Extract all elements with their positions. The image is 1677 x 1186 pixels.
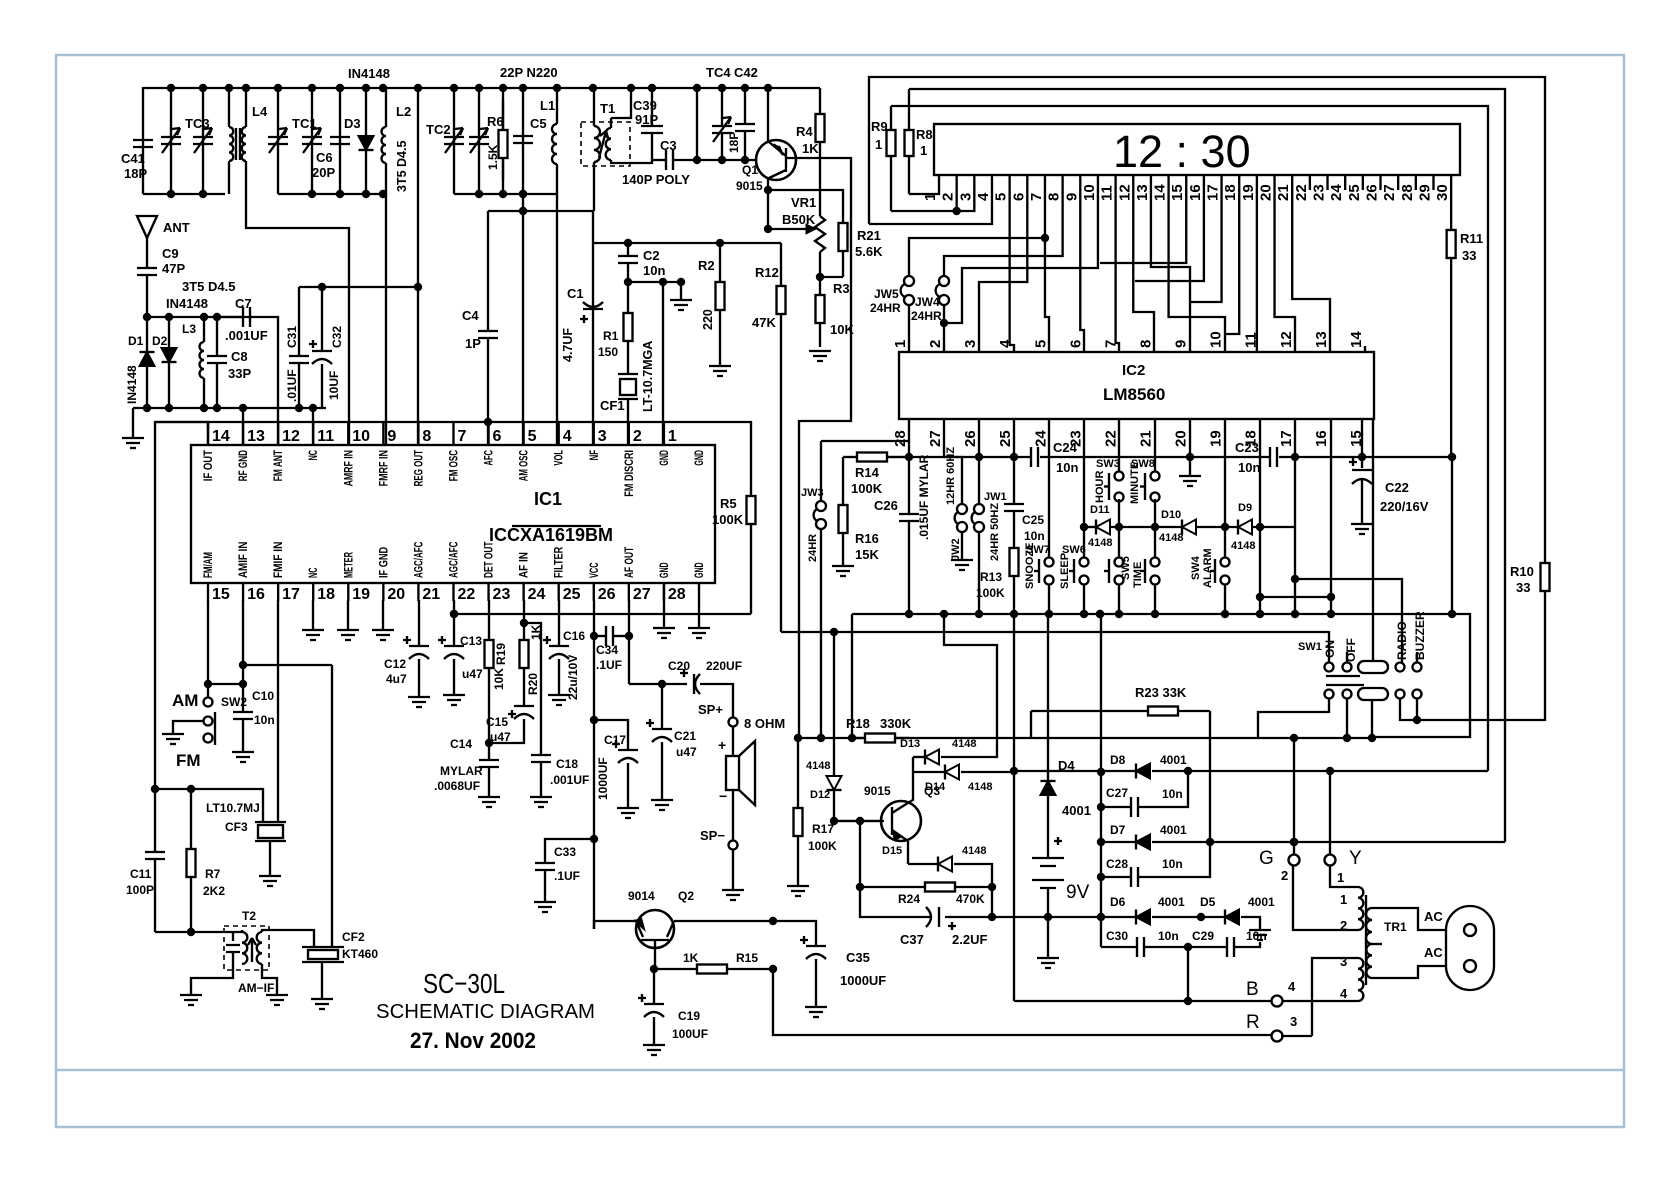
- svg-text:8: 8: [1046, 193, 1063, 201]
- jumper JW4 24HR: [939, 276, 949, 286]
- wire display pin12 to IC2 pin8: [1133, 190, 1154, 352]
- svg-text:27: 27: [633, 586, 651, 603]
- svg-text:NC: NC: [308, 568, 320, 578]
- svg-text:TC2: TC2: [426, 122, 451, 137]
- svg-text:C25: C25: [1022, 513, 1044, 527]
- capacitor C41: [133, 140, 153, 147]
- wire C2 top row: [593, 242, 781, 244]
- svg-text:10n: 10n: [254, 713, 275, 727]
- svg-text:C12: C12: [384, 657, 406, 671]
- svg-text:91P: 91P: [635, 112, 658, 127]
- svg-text:10n: 10n: [1158, 929, 1179, 943]
- IC1 pin 24 stub: [522, 583, 524, 601]
- wire TC4/C42 bottom row: [697, 159, 756, 161]
- svg-text:MYLAR: MYLAR: [440, 764, 483, 778]
- IC1 pin 21 stub: [417, 583, 419, 601]
- svg-text:D7: D7: [1110, 823, 1126, 837]
- wire display pin9 to IC2 pin6: [1080, 190, 1084, 352]
- svg-text:GND: GND: [659, 450, 671, 466]
- switch SW6 SLEEP: [1080, 558, 1089, 567]
- IC2 pin15 column: [1361, 419, 1363, 457]
- svg-text:Q1: Q1: [742, 163, 758, 177]
- svg-text:4148: 4148: [1231, 540, 1255, 552]
- wire RADIO/BUZZER bottoms to R10: [1400, 591, 1545, 720]
- wire R15 node down to R terminal line: [773, 969, 1277, 1035]
- IC1 pin 12 stub: [277, 422, 279, 445]
- svg-text:.015UF MYLAR: .015UF MYLAR: [917, 454, 931, 540]
- svg-text:C18: C18: [556, 757, 578, 771]
- display pin 11 stub: [1114, 175, 1116, 190]
- svg-text:10UF: 10UF: [327, 371, 341, 400]
- wire L1 to IC1 pin4: [556, 194, 558, 445]
- svg-text:100K: 100K: [808, 839, 837, 853]
- ground R2: [709, 366, 731, 376]
- svg-text:FM: FM: [176, 751, 201, 770]
- display pin 1 stub: [938, 175, 940, 190]
- svg-text:C22: C22: [1385, 480, 1409, 495]
- svg-text:JW1: JW1: [984, 491, 1007, 503]
- svg-text:14: 14: [1348, 331, 1365, 348]
- wire C20 row: [629, 683, 687, 685]
- svg-text:C9: C9: [162, 246, 179, 261]
- resistor R2 220: [719, 243, 721, 282]
- terminal Y: [1325, 855, 1336, 866]
- svg-text:1K: 1K: [683, 951, 699, 965]
- svg-text:GND: GND: [694, 562, 706, 578]
- wire display pin18 joins IC2 pin10 column: [1225, 190, 1239, 334]
- svg-text:22: 22: [1293, 184, 1310, 201]
- wire pin26 VCC column: [593, 600, 595, 929]
- svg-text:L4: L4: [252, 104, 268, 119]
- capacitor C13 u47: [453, 600, 455, 646]
- svg-text:R20: R20: [526, 673, 540, 695]
- transformer TR1 core: [1365, 895, 1367, 985]
- diode D3: [365, 88, 367, 194]
- wire C5 rail to IC1 pin5: [522, 194, 524, 445]
- wire rail right loop to SW1 oval: [1372, 614, 1470, 737]
- svg-text:470K: 470K: [956, 892, 985, 906]
- svg-text:5: 5: [528, 428, 537, 445]
- wire FM tank bottom rail: [454, 193, 557, 195]
- resistor R5 100K: [750, 495, 752, 497]
- svg-text:13: 13: [1313, 331, 1330, 348]
- svg-text:C31: C31: [285, 326, 299, 348]
- svg-text:13: 13: [247, 428, 265, 445]
- display pin 12 stub: [1132, 175, 1134, 190]
- wire C23/C24 row: [887, 456, 1031, 458]
- IC1 pin 22 stub: [452, 583, 454, 601]
- IC1 pin 25 stub: [558, 583, 560, 601]
- svg-text:D13: D13: [900, 738, 920, 750]
- svg-text:C30: C30: [1106, 929, 1128, 943]
- svg-text:22u/10V: 22u/10V: [566, 655, 580, 700]
- svg-text:R15: R15: [736, 951, 758, 965]
- display pin 19 stub: [1256, 175, 1258, 190]
- svg-text:3: 3: [598, 428, 607, 445]
- svg-text:18P: 18P: [727, 132, 741, 153]
- capacitor C34 .1UF: [594, 635, 606, 637]
- svg-text:C39: C39: [633, 98, 657, 113]
- IC1 pin 2 stub: [628, 422, 630, 445]
- svg-text:25: 25: [997, 430, 1014, 447]
- svg-text:.1UF: .1UF: [554, 869, 580, 883]
- capacitor C1 4.7UF: [592, 211, 594, 243]
- wire top supply rail: [143, 88, 820, 194]
- wire AM detector rail: [147, 316, 252, 318]
- svg-text:ICCXA1619BM: ICCXA1619BM: [489, 525, 613, 545]
- svg-text:8: 8: [422, 428, 431, 445]
- svg-text:SCHEMATIC DIAGRAM: SCHEMATIC DIAGRAM: [376, 1001, 595, 1023]
- svg-text:100K: 100K: [976, 586, 1005, 600]
- diode D8 4001: [1014, 770, 1101, 772]
- svg-text:2: 2: [927, 340, 944, 348]
- wire SW1 row2 oval drop: [1371, 700, 1373, 738]
- switch SW4 ALARM: [1224, 527, 1226, 558]
- svg-text:C5: C5: [530, 116, 547, 131]
- terminal G: [1289, 855, 1300, 866]
- wire R23 right to G row: [1209, 711, 1211, 842]
- display pin 26 stub: [1379, 175, 1381, 190]
- svg-text:IC2: IC2: [1122, 362, 1145, 379]
- diode D12 4148: [827, 776, 842, 790]
- svg-text:2.2UF: 2.2UF: [952, 932, 987, 947]
- wire pin27 column: [628, 600, 630, 684]
- svg-text:C28: C28: [1106, 857, 1128, 871]
- svg-text:D11: D11: [1090, 504, 1110, 516]
- wire D14 row: [913, 771, 945, 773]
- svg-text:220: 220: [701, 309, 715, 330]
- svg-text:C33: C33: [554, 845, 576, 859]
- svg-text:D15: D15: [882, 845, 902, 857]
- svg-text:21: 21: [1275, 184, 1292, 201]
- capacitor C42: [744, 88, 746, 124]
- svg-text:33: 33: [1516, 580, 1530, 595]
- svg-text:21: 21: [1137, 430, 1154, 447]
- svg-text:LT10.7MJ: LT10.7MJ: [206, 801, 260, 815]
- svg-text:1: 1: [920, 143, 927, 158]
- svg-text:24HR: 24HR: [870, 301, 901, 315]
- svg-text:C20: C20: [668, 659, 690, 673]
- svg-text:ON: ON: [1323, 640, 1337, 658]
- IC1 pin 4 stub: [558, 422, 560, 445]
- ceramic filter CF3 LT10.7MJ: [255, 822, 286, 841]
- resistor R13 100K: [1013, 545, 1015, 548]
- capacitor C33 .1UF: [545, 839, 594, 863]
- svg-text:18: 18: [1222, 184, 1239, 201]
- IC1 pin 18 stub: [312, 583, 314, 601]
- svg-text:12: 12: [1278, 331, 1295, 348]
- display pin 25 stub: [1362, 175, 1364, 190]
- svg-text:12: 12: [282, 428, 300, 445]
- svg-text:4001: 4001: [1158, 895, 1185, 909]
- wire pin15 oval riser: [1372, 419, 1374, 660]
- ground IC1 extra GND: [698, 583, 700, 628]
- svg-text:18: 18: [317, 586, 335, 603]
- svg-text:R12: R12: [755, 265, 779, 280]
- svg-text:D6: D6: [1110, 895, 1126, 909]
- svg-text:D12: D12: [810, 789, 830, 801]
- diode D10 4148: [1182, 520, 1196, 535]
- ground IC1 pin28: [663, 583, 665, 628]
- wire main low rail: [798, 737, 1372, 739]
- svg-text:15: 15: [1169, 184, 1186, 201]
- svg-text:47K: 47K: [752, 315, 776, 330]
- svg-text:D10: D10: [1161, 509, 1181, 521]
- IC2 pin21 column: [1154, 419, 1156, 471]
- capacitor C39 91P: [651, 88, 653, 126]
- display pin 16 stub: [1203, 175, 1205, 190]
- diode D9 4148: [1238, 520, 1252, 535]
- capacitor C22 220/16V: [1361, 457, 1363, 468]
- svg-text:R17: R17: [812, 822, 834, 836]
- wire TR1 secondary to AC plug: [1372, 908, 1452, 930]
- svg-text:B: B: [1246, 979, 1259, 1000]
- display pin 3 stub: [973, 175, 975, 190]
- svg-text:Q2: Q2: [678, 889, 694, 903]
- potentiometer VR1 B50K: [815, 216, 825, 252]
- resistor R4 1K: [819, 88, 821, 114]
- svg-text:27. Nov 2002: 27. Nov 2002: [410, 1028, 536, 1053]
- wire AM detector ground rail: [133, 407, 326, 409]
- svg-text:25: 25: [1346, 184, 1363, 201]
- wire T2 input row: [155, 931, 243, 933]
- resistor R23 33K: [1030, 711, 1032, 738]
- svg-text:CF3: CF3: [225, 820, 248, 834]
- wire SW1 row1 oval riser: [1372, 660, 1374, 661]
- svg-text:1000UF: 1000UF: [596, 757, 610, 800]
- svg-text:FMIF IN: FMIF IN: [273, 542, 285, 578]
- svg-text:AGC/AFC: AGC/AFC: [413, 542, 425, 578]
- svg-text:R18: R18: [846, 716, 870, 731]
- svg-text:25: 25: [563, 586, 581, 603]
- capacitor C14 MYLAR .0068UF: [488, 743, 490, 760]
- svg-text:.001UF: .001UF: [550, 773, 589, 787]
- svg-text:SW5: SW5: [1120, 556, 1132, 580]
- svg-text:R14: R14: [855, 465, 880, 480]
- svg-text:22: 22: [457, 586, 475, 603]
- IC2 pin14 stub: [1364, 346, 1366, 352]
- svg-text:SNOOZE: SNOOZE: [1024, 543, 1036, 589]
- svg-text:4001: 4001: [1160, 823, 1187, 837]
- svg-text:33: 33: [1462, 248, 1476, 263]
- svg-text:TIME: TIME: [1132, 562, 1144, 588]
- wire R5 bottom to pin22: [454, 613, 751, 615]
- IC1 pin 27 stub: [628, 583, 630, 601]
- display pin 29 stub: [1432, 175, 1434, 190]
- svg-text:ALARM: ALARM: [1202, 548, 1214, 588]
- svg-text:7: 7: [1102, 340, 1119, 348]
- svg-text:4148: 4148: [1088, 537, 1112, 549]
- svg-text:−: −: [719, 788, 727, 804]
- resistor R7 2K2: [190, 789, 192, 849]
- resistor R17 100K: [797, 738, 799, 808]
- svg-text:C17: C17: [604, 733, 626, 747]
- resistor R18 330K: [852, 737, 865, 739]
- svg-text:C13: C13: [460, 634, 482, 648]
- inductor L3: [203, 317, 205, 342]
- antenna ANT: [137, 216, 157, 238]
- transformer T2 dashed box: [224, 926, 269, 970]
- diode D5 4001: [1225, 910, 1239, 925]
- svg-text:SP+: SP+: [698, 702, 723, 717]
- capacitor C25 10n: [1004, 504, 1024, 511]
- svg-text:R8: R8: [916, 127, 933, 142]
- display pin 27 stub: [1397, 175, 1399, 190]
- svg-text:L3: L3: [182, 322, 196, 336]
- svg-text:10n: 10n: [1162, 857, 1183, 871]
- svg-text:C6: C6: [316, 150, 333, 165]
- svg-text:C26: C26: [874, 498, 898, 513]
- display pin 14 stub: [1167, 175, 1169, 190]
- resistor R3 10K: [819, 277, 821, 295]
- wire IC2 ground rail: [852, 613, 1452, 615]
- display pin 10 stub: [1097, 175, 1099, 190]
- svg-text:5.6K: 5.6K: [855, 244, 883, 259]
- svg-text:FM/AM: FM/AM: [203, 552, 215, 578]
- svg-text:8: 8: [1137, 340, 1154, 348]
- speaker 8 OHM: [732, 727, 734, 756]
- svg-text:24HR 50HZ: 24HR 50HZ: [989, 503, 1001, 561]
- svg-text:NC: NC: [308, 450, 320, 460]
- ceramic filter CF2 KT460: [302, 947, 344, 962]
- inductor L2: [385, 88, 387, 127]
- wire C29/C30 node to B line: [1187, 947, 1189, 1001]
- capacitor C17 1000UF: [594, 720, 628, 750]
- svg-text:D8: D8: [1110, 753, 1126, 767]
- svg-text:AC: AC: [1424, 945, 1443, 960]
- svg-text:IN4148: IN4148: [125, 365, 139, 404]
- diode D4 4001: [1041, 781, 1056, 795]
- svg-text:SW1: SW1: [1298, 641, 1322, 653]
- IC1 pin 15 stub: [207, 583, 209, 601]
- ground C2 row: [680, 282, 682, 300]
- diode D7 4001: [1101, 841, 1136, 843]
- switch SW7 SNOOZE: [1045, 558, 1054, 567]
- diode D11 4148: [1096, 520, 1110, 535]
- svg-text:2K2: 2K2: [203, 884, 225, 898]
- wire OFF stub: [1346, 652, 1348, 662]
- display pin 5 stub: [1008, 175, 1010, 190]
- svg-text:1: 1: [892, 340, 909, 348]
- capacitor C6: [339, 88, 341, 194]
- IC2 pin28 column with C26: [908, 419, 910, 514]
- svg-text:4148: 4148: [806, 760, 830, 772]
- resistor R6 1.5K: [502, 88, 504, 194]
- capacitor C11 100P: [154, 789, 156, 852]
- ground T2 left: [191, 964, 233, 995]
- svg-text:10K: 10K: [830, 322, 854, 337]
- svg-text:1.5K: 1.5K: [486, 144, 500, 170]
- svg-text:R5: R5: [720, 496, 737, 511]
- svg-text:AM−IF: AM−IF: [238, 981, 274, 995]
- svg-text:KT460: KT460: [342, 947, 378, 961]
- svg-text:C7: C7: [235, 296, 252, 311]
- display pin 9 stub: [1079, 175, 1081, 190]
- svg-text:C16: C16: [563, 629, 585, 643]
- svg-text:C2: C2: [643, 248, 660, 263]
- svg-text:C34: C34: [596, 643, 618, 657]
- svg-text:11: 11: [1243, 332, 1260, 348]
- ground R3: [809, 351, 831, 361]
- svg-text:17: 17: [282, 586, 300, 603]
- svg-text:GND: GND: [694, 450, 706, 466]
- svg-text:AMRF IN: AMRF IN: [343, 450, 355, 486]
- svg-text:24: 24: [528, 586, 546, 603]
- svg-text:16: 16: [247, 586, 265, 603]
- svg-text:4.7UF: 4.7UF: [561, 328, 575, 362]
- wire JW5 to display pin7/8 and IC2 pin5: [909, 238, 1045, 276]
- wire BUZZER top stub: [1416, 652, 1418, 662]
- capacitor C37 2.2UF: [860, 887, 932, 917]
- wire rail left drop: [851, 614, 853, 738]
- wire RADIO riser to IC2 pin17: [1295, 579, 1402, 662]
- svg-text:11: 11: [317, 428, 334, 445]
- IC1 pin 8 stub: [417, 422, 419, 445]
- IC1 pin 28 stub: [663, 583, 665, 601]
- wire R9 to display pins 2+3: [891, 190, 974, 211]
- svg-text:4148: 4148: [1159, 532, 1183, 544]
- svg-text:C37: C37: [900, 932, 924, 947]
- display pin 8 stub: [1061, 175, 1063, 190]
- svg-text:3: 3: [1290, 1014, 1297, 1029]
- svg-text:22P N220: 22P N220: [500, 65, 558, 80]
- svg-text:28: 28: [668, 586, 686, 603]
- wire D14/D8 row: [1010, 767, 1018, 775]
- wire display pin11 to IC2 pin7: [1116, 190, 1119, 352]
- svg-text:SW3: SW3: [1096, 458, 1120, 470]
- svg-text:u47: u47: [676, 745, 697, 759]
- svg-text:2: 2: [1340, 918, 1347, 933]
- wire pin11 feed: [312, 408, 314, 445]
- wire pin17 to CF3: [277, 600, 279, 822]
- svg-text:100K: 100K: [712, 512, 744, 527]
- svg-text:10n: 10n: [1024, 529, 1045, 543]
- svg-text:9: 9: [387, 428, 396, 445]
- trimmer TC2b: [478, 88, 480, 194]
- svg-text:4148: 4148: [968, 781, 992, 793]
- capacitor C27 10n: [1101, 806, 1131, 808]
- svg-text:FM OSC: FM OSC: [448, 450, 460, 481]
- svg-text:T2: T2: [242, 909, 256, 923]
- svg-text:10K: 10K: [492, 668, 506, 690]
- svg-text:AF IN: AF IN: [519, 552, 531, 578]
- wire left tank bottom rail: [143, 193, 225, 195]
- capacitor C5: [522, 88, 524, 194]
- display pin 2 stub: [955, 175, 957, 190]
- wire R20 tap to C18: [524, 623, 541, 755]
- wire display pin6 to IC2 pin3: [979, 190, 1027, 352]
- battery 9V: [1032, 858, 1064, 888]
- wire G row tap: [1290, 838, 1298, 846]
- svg-text:METER: METER: [343, 552, 355, 578]
- resistor R10 33: [1544, 562, 1546, 564]
- svg-text:8 OHM: 8 OHM: [744, 716, 785, 731]
- svg-text:B50K: B50K: [782, 212, 816, 227]
- IC1 pin 7 stub: [452, 422, 454, 445]
- svg-text:330K: 330K: [880, 716, 912, 731]
- display module 12:30: [934, 124, 1460, 175]
- svg-text:+: +: [718, 737, 726, 753]
- svg-text:L1: L1: [540, 98, 555, 113]
- wire C2 bottom row: [628, 281, 681, 283]
- svg-text:4: 4: [997, 339, 1014, 348]
- svg-text:.1UF: .1UF: [596, 658, 622, 672]
- wire C11/R7 row: [155, 789, 263, 822]
- wire R8 top loop to G row: [909, 89, 1505, 842]
- IC1 pin 19 stub: [347, 583, 349, 601]
- svg-text:.01UF: .01UF: [285, 369, 299, 402]
- IC1 pin 23 stub: [487, 583, 489, 601]
